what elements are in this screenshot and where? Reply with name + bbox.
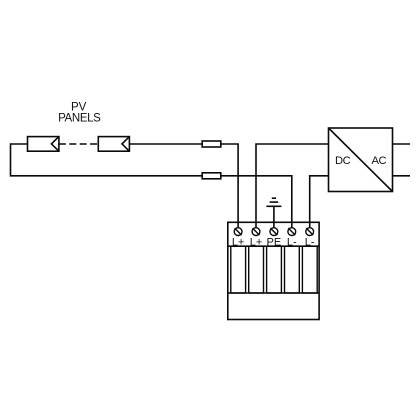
svg-text:PANELS: PANELS	[58, 113, 101, 125]
svg-text:DC: DC	[335, 155, 351, 167]
svg-text:L-: L-	[305, 236, 315, 248]
svg-text:AC: AC	[372, 155, 387, 167]
svg-text:PV: PV	[71, 101, 87, 113]
svg-text:PE: PE	[267, 236, 282, 248]
svg-text:L+: L+	[250, 236, 263, 248]
svg-text:L-: L-	[287, 236, 297, 248]
svg-text:L+: L+	[232, 236, 245, 248]
